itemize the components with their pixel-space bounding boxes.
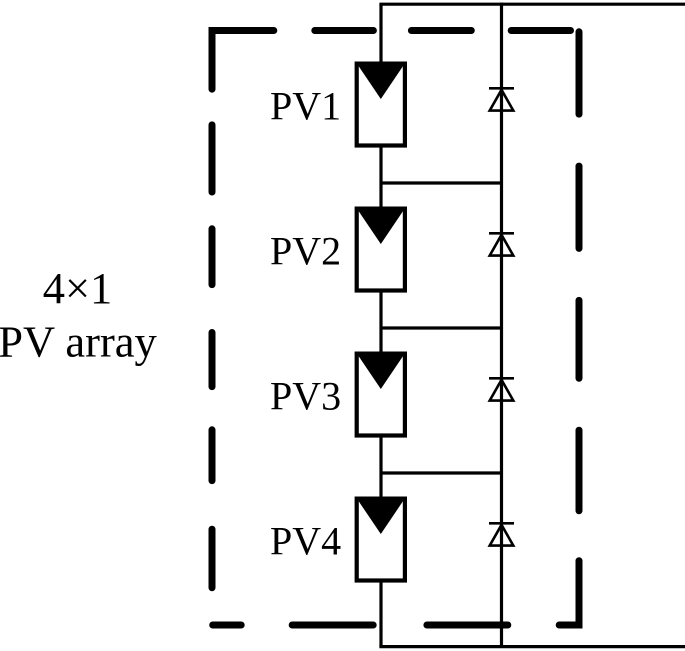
svg-text:PV1: PV1	[270, 84, 341, 129]
dashed enclosure: top edge dash 3	[411, 27, 471, 34]
wire: PV1 to PV2	[379, 145, 382, 208]
svg-text:PV3: PV3	[270, 374, 341, 419]
dashed enclosure: right edge dash 1	[576, 32, 583, 114]
dashed enclosure: top-left corner dash	[212, 31, 274, 90]
dashed enclosure: left edge dash 5	[209, 430, 216, 481]
wire: top bus	[379, 3, 685, 6]
wire: PV3 to PV4	[379, 435, 382, 498]
dashed enclosure: bottom edge dash 1	[213, 622, 242, 629]
dashed enclosure: bottom edge dash 3	[427, 622, 508, 629]
wire: junction row 2	[381, 326, 502, 329]
bypass diode D4	[489, 523, 514, 545]
wire: PV4 to bottom bus	[379, 580, 382, 647]
PV module PV2	[357, 209, 405, 291]
dashed enclosure: left edge dash 3	[209, 229, 216, 285]
PV module PV1	[357, 64, 405, 146]
svg-text:PV4: PV4	[270, 519, 341, 564]
wire: PV2 to PV3	[379, 290, 382, 353]
dashed enclosure: bottom-right corner dash	[559, 561, 579, 625]
wire: bypass-diode bus	[500, 3, 503, 647]
wire: junction row 1	[381, 181, 502, 184]
dashed enclosure: top edge dash 2	[315, 27, 374, 34]
svg-text:4×1: 4×1	[43, 263, 113, 313]
wire: top bus drop to PV1	[379, 4, 382, 64]
wire: junction row 3	[381, 471, 502, 474]
dashed enclosure: right edge dash 4	[576, 430, 583, 511]
label 4x1 PV array	[0, 263, 158, 366]
dashed enclosure: bottom edge dash 2	[292, 622, 373, 629]
PV module PV4	[357, 499, 405, 581]
bypass diode D2	[489, 233, 514, 255]
dashed enclosure: right edge dash 3	[576, 300, 583, 378]
bypass diode D3	[489, 378, 514, 400]
dashed enclosure: left edge dash 4	[209, 333, 216, 387]
dashed enclosure: top edge dash 4	[511, 27, 570, 34]
svg-text:PV2: PV2	[270, 229, 341, 274]
bypass diode D1	[489, 88, 514, 110]
svg-text:PV array: PV array	[0, 316, 158, 366]
PV module PV3	[357, 354, 405, 436]
wire: bottom bus	[379, 645, 685, 648]
dashed enclosure: right edge dash 2	[576, 166, 583, 248]
dashed enclosure: left edge dash 6	[209, 529, 216, 588]
dashed enclosure: left edge dash 2	[209, 125, 216, 192]
